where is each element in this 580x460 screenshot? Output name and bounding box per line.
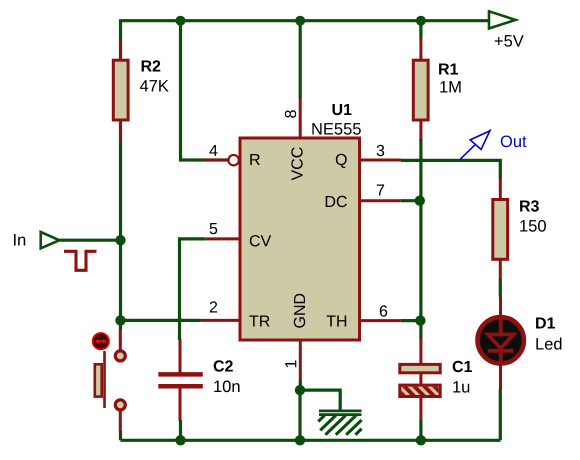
pin 2 stub TR bbox=[200, 319, 240, 322]
junction TH bbox=[415, 315, 425, 325]
wire GND pin to ground junction bbox=[299, 380, 302, 390]
junction TR node bbox=[115, 315, 125, 325]
wire C2 to bottom rail bbox=[179, 420, 182, 440]
wire pin 8 to top rail bbox=[299, 21, 302, 98]
value NE555 bbox=[312, 123, 360, 135]
value 47K bbox=[140, 80, 169, 91]
wire top rail bbox=[121, 21, 490, 241]
wire Q output to out corner bbox=[401, 160, 500, 178]
junction C1 rail bbox=[416, 435, 426, 445]
pin name TR bbox=[249, 316, 269, 327]
label Out bbox=[501, 136, 527, 148]
junction top rail / VCC pin 8 bbox=[295, 16, 305, 26]
pin 5 stub CV bbox=[206, 237, 240, 240]
pin 1 stub GND bbox=[299, 340, 302, 381]
label D1 bbox=[536, 318, 555, 329]
junction top rail / R1 bbox=[416, 16, 426, 26]
pin number 7 bbox=[377, 185, 384, 196]
pin 8 stub VCC bbox=[299, 97, 302, 138]
pin 4 reset bubble bbox=[228, 155, 238, 165]
wire bottom rail bbox=[121, 439, 501, 442]
push button bbox=[93, 329, 126, 432]
wire LED to bottom rail corner bbox=[499, 389, 502, 440]
resistor R1 bbox=[413, 38, 428, 141]
wire R3 to LED bbox=[499, 279, 502, 297]
pulse waveform symbol bbox=[64, 251, 97, 270]
wire C1 to bottom rail bbox=[419, 420, 422, 440]
IC U1 NE555 timer body bbox=[240, 138, 360, 340]
wire DC junction down to TH junction bbox=[419, 201, 422, 321]
capacitor C2 bbox=[158, 339, 203, 421]
junction ground node bbox=[295, 385, 305, 395]
wire R1 bottom to DC junction bbox=[419, 139, 422, 201]
pin number 2 bbox=[210, 301, 217, 312]
junction ground bottom rail bbox=[295, 435, 305, 445]
pin number 6 bbox=[380, 305, 387, 316]
output probe pointer bbox=[461, 130, 491, 159]
wire left column In node to TR node bbox=[119, 240, 122, 320]
wire In to left column bbox=[59, 239, 120, 242]
junction In node bbox=[115, 235, 125, 245]
pin number 3 bbox=[377, 145, 385, 156]
pin name DC bbox=[326, 196, 347, 207]
pin 7 stub DC bbox=[360, 199, 401, 202]
pin number 4 bbox=[209, 145, 217, 156]
value 150 bbox=[520, 220, 546, 232]
pin number 8 (rotated) bbox=[285, 110, 296, 118]
ground bbox=[318, 411, 361, 435]
pin name VCC (rotated) bbox=[291, 147, 302, 180]
capacitor C1 bbox=[391, 338, 448, 421]
wire TH stub to junction bbox=[401, 319, 421, 322]
pin name GND (rotated) bbox=[294, 294, 305, 328]
junction C2 rail bbox=[175, 435, 185, 445]
wire DC stub to junction bbox=[401, 199, 421, 202]
label R2 bbox=[142, 60, 161, 71]
wire reset branch: rail down and across to pin 4 bbox=[181, 21, 230, 160]
value Led bbox=[536, 338, 561, 350]
junction DC bbox=[415, 196, 425, 206]
pin 4 stub bbox=[203, 159, 228, 162]
pin number 1 (rotated) bbox=[285, 360, 296, 367]
pin name R bbox=[250, 154, 259, 165]
wire TR node to button bbox=[119, 320, 122, 330]
junction top rail / reset branch bbox=[176, 16, 186, 26]
input source arrow In bbox=[41, 232, 60, 248]
label C2 bbox=[214, 360, 233, 371]
wire TH junction down to C1 bbox=[419, 321, 422, 339]
wire CV to C2 branch bbox=[180, 239, 206, 340]
pin 6 stub TH bbox=[360, 319, 401, 322]
pin name CV bbox=[250, 235, 271, 246]
wire TR to left column bbox=[121, 319, 201, 322]
label R3 bbox=[520, 200, 539, 211]
diode D1 LED bbox=[478, 296, 524, 390]
wire ground node to ground symbol bbox=[300, 390, 340, 410]
label U1 bbox=[333, 104, 352, 115]
label In bbox=[14, 234, 25, 245]
value 10n bbox=[214, 381, 239, 393]
+5V power arrow bbox=[489, 11, 516, 28]
label R1 bbox=[439, 64, 458, 75]
+5V label bbox=[495, 35, 524, 47]
pin number 5 bbox=[210, 223, 218, 234]
value 1M bbox=[440, 81, 460, 92]
label C1 bbox=[453, 361, 472, 372]
value 1u bbox=[453, 381, 469, 393]
pin name TH bbox=[327, 316, 347, 327]
wire button to bottom rail bbox=[119, 431, 122, 441]
pin 3 stub Q bbox=[360, 159, 402, 162]
resistor R3 bbox=[493, 178, 508, 281]
resistor R2 bbox=[113, 40, 128, 141]
pin name Q bbox=[336, 154, 347, 168]
wire ground node down to bottom rail bbox=[298, 390, 301, 440]
wire R1 branch vertical bbox=[419, 21, 422, 39]
